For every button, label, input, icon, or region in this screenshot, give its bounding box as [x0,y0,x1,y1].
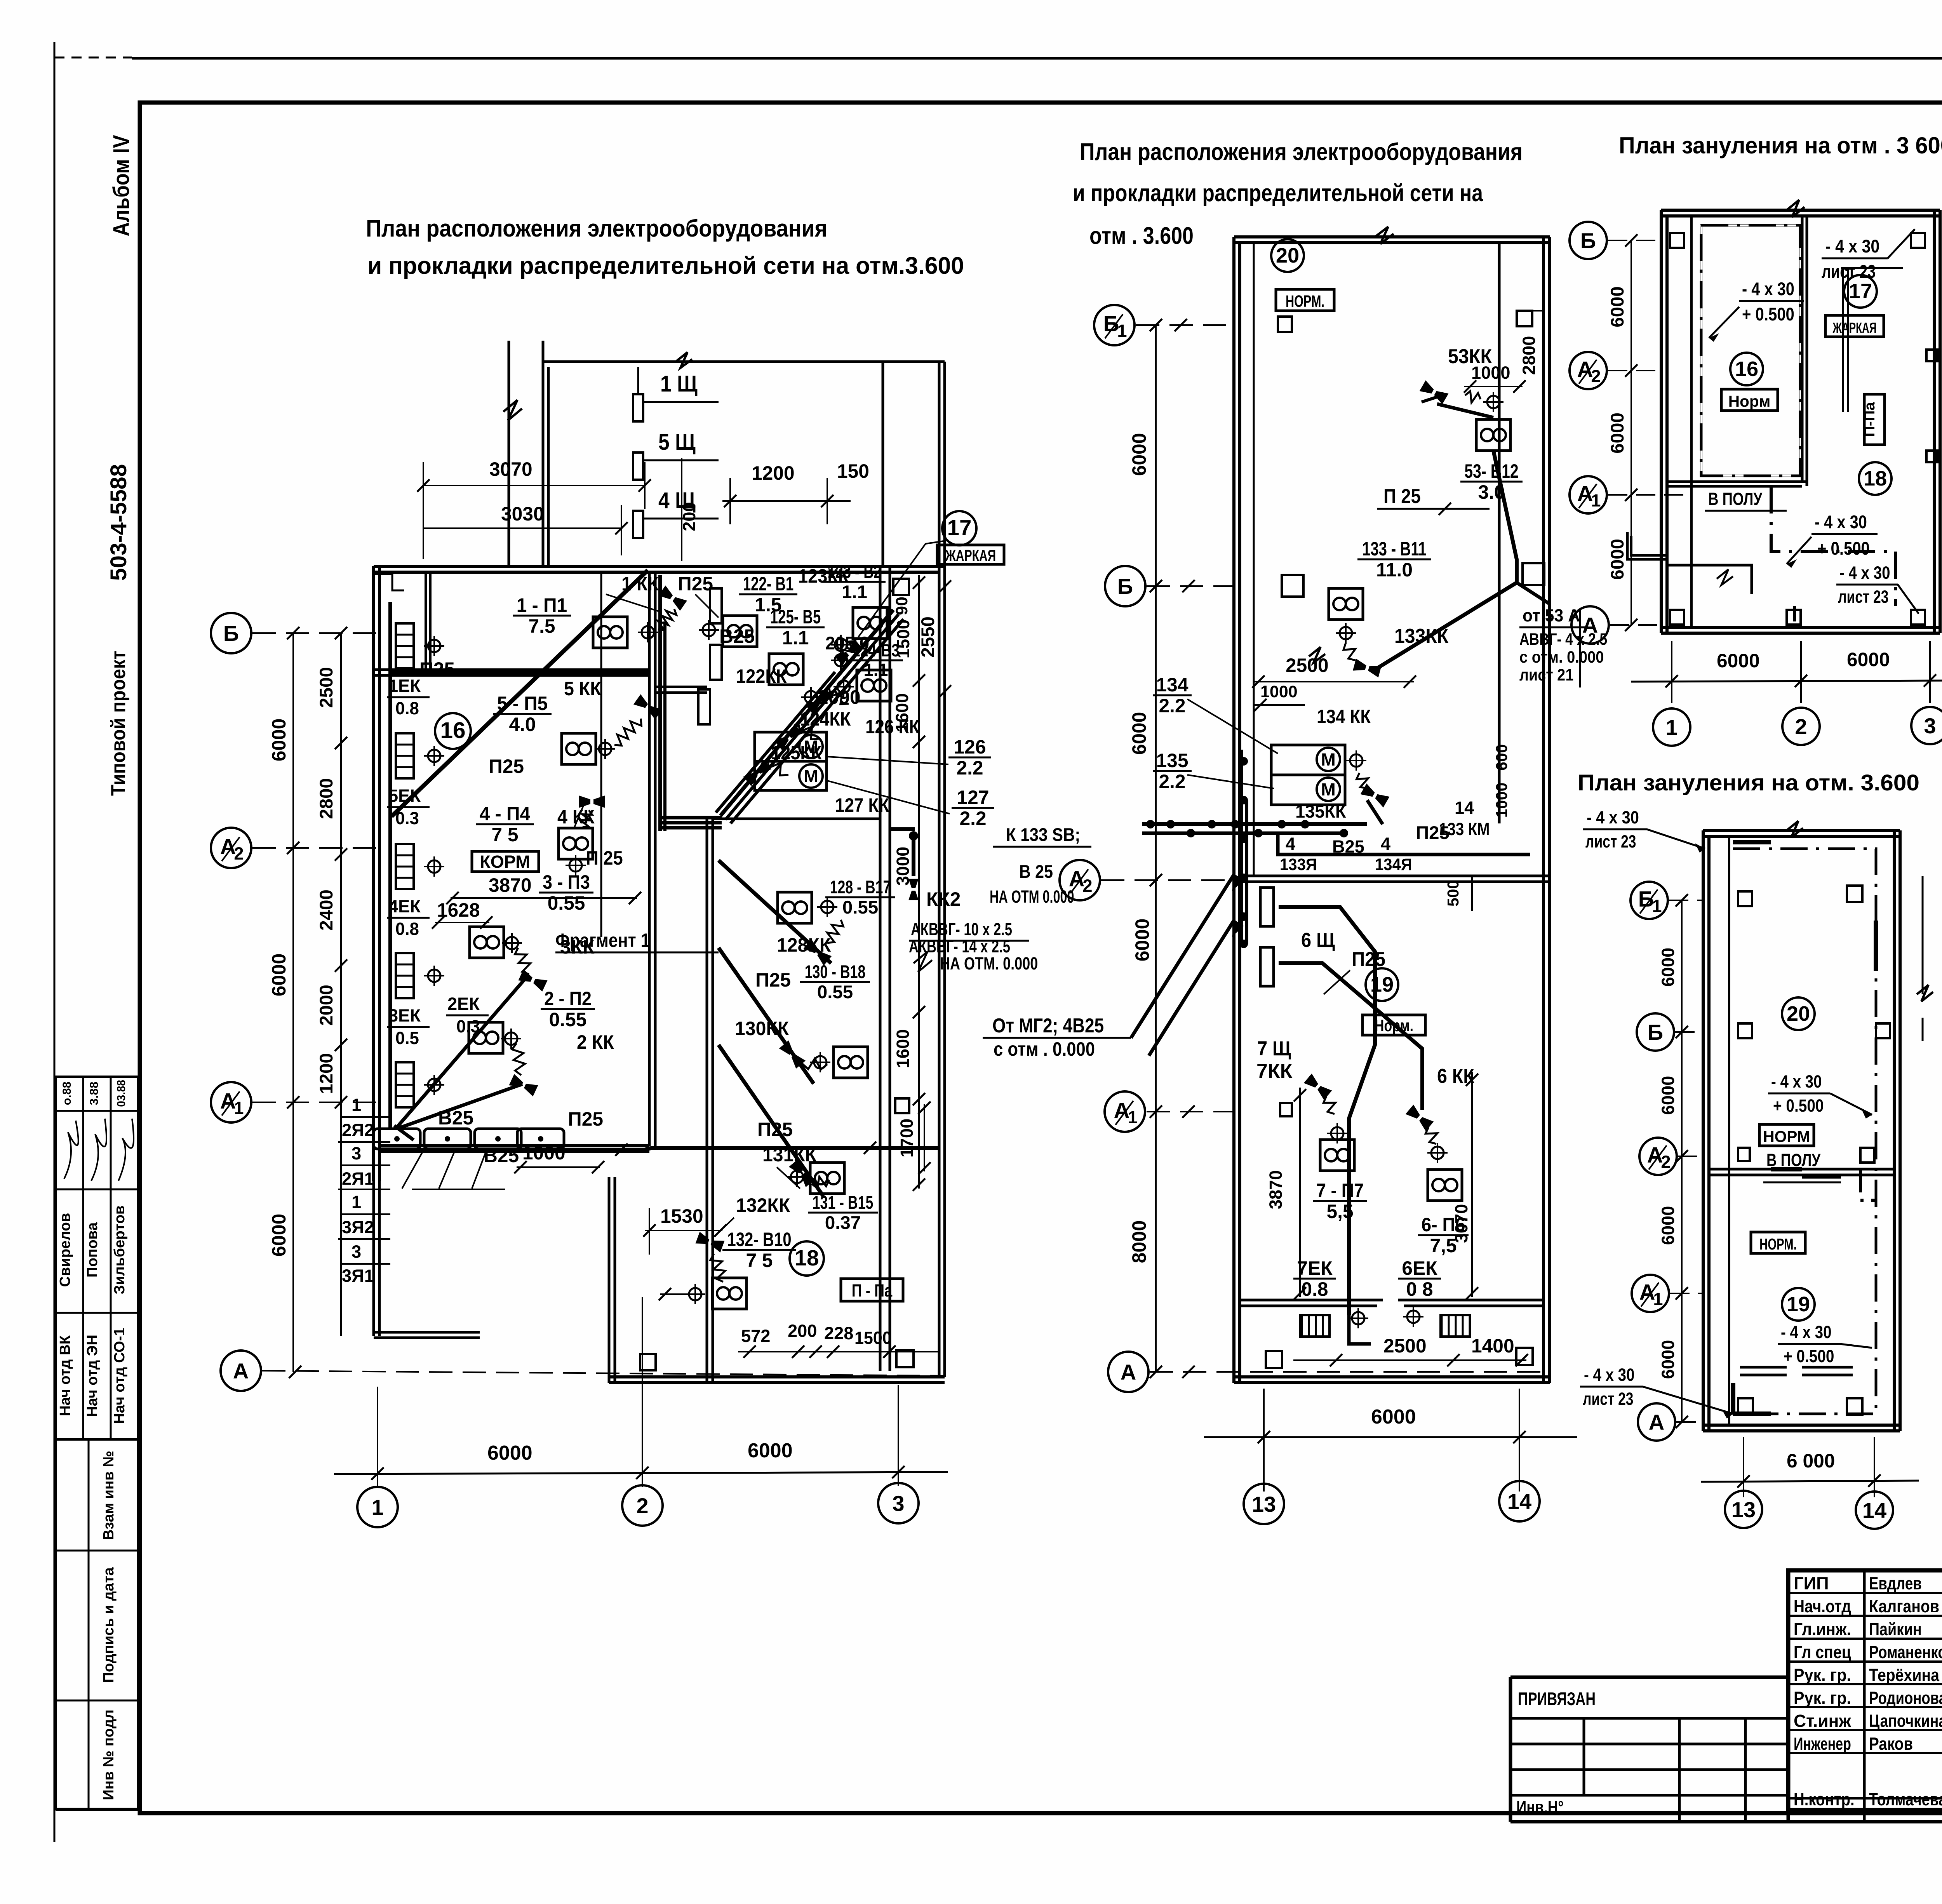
plan1 grid bubble A2 [211,828,251,868]
plan1 wall square markers bottom [640,1354,656,1370]
svg-text:6000: 6000 [1128,433,1150,476]
plan3 grid bubble B [1570,222,1607,259]
svg-text:600: 600 [1493,744,1510,771]
svg-text:лист 23: лист 23 [1838,587,1889,607]
plan2 junction dots [1147,821,1154,828]
plan1 wall stub left of hall [508,341,510,568]
svg-text:1600: 1600 [892,693,912,733]
plan1 shield panel 4Shch [633,511,643,538]
svg-text:Цапочкина: Цапочкина [1869,1711,1942,1731]
plan1 room17 number circle [942,511,976,545]
svg-text:3070: 3070 [489,458,532,480]
plan1 grid bubble A [221,1351,261,1391]
plan4 ground thick corner top [1733,840,1771,844]
svg-text:14: 14 [1455,798,1474,818]
svg-text:Н.контр.: Н.контр. [1794,1789,1855,1809]
svg-text:134Я: 134Я [1375,855,1412,874]
svg-text:1: 1 [1652,896,1662,916]
plan1 left outer wall [372,566,375,1181]
svg-text:13: 13 [1731,1497,1756,1522]
plan4 inner left wall [1728,836,1730,1425]
svg-text:6ЕК: 6ЕК [1402,1257,1437,1279]
plan2 building bottom wall [1234,1375,1550,1378]
plan1 room17 fixtures [723,616,757,647]
plan2 interior wall at A2 [1240,875,1550,877]
svg-text:150: 150 [837,460,869,482]
svg-text:1600: 1600 [893,1029,913,1069]
plan2 cables from panels [1279,907,1375,1315]
svg-text:Ст.инж: Ст.инж [1794,1711,1852,1731]
svg-text:К 133 SВ;: К 133 SВ; [1006,825,1080,845]
plan1 riser line from panels [637,367,639,394]
svg-text:М: М [1321,750,1336,769]
plan2 grid bubble B1 [1094,305,1135,345]
svg-text:1.1: 1.1 [842,582,867,602]
sheet outer border top [54,57,132,59]
plan1 upper hall top wall [543,360,945,363]
svg-text:Б: Б [223,621,239,646]
plan1 bottom grid extension lines [377,1387,378,1488]
plan2 6Shch panel [1260,888,1274,926]
svg-text:127: 127 [957,787,989,808]
plan1 diagonal cable 130 [719,948,814,1084]
plan2 grid bubble A1 [1105,1091,1145,1132]
plan4 grid bubble B1 [1631,882,1668,919]
svg-text:572: 572 [741,1326,770,1346]
plan2 7Shch panel [1260,947,1274,986]
plan1 top dim 3030 [423,527,621,529]
svg-text:КК2: КК2 [926,888,961,910]
plan1 outer dim 2550 [944,583,946,694]
plan1 leader lines from connectors [402,1150,423,1189]
plan1 cable along bottom [412,1148,939,1150]
svg-text:В25: В25 [438,1107,473,1129]
plan2 fixture 6-P6 [1428,1170,1462,1201]
plan4 partition gaps [1771,1167,1802,1171]
plan3 dash-dot ground loop room16 [1701,225,1800,476]
svg-text:5 Щ: 5 Щ [658,430,696,455]
plan1 room18 top wall [713,818,880,820]
svg-text:Евдлев: Евдлев [1869,1573,1922,1593]
plan2 bottom inner wall [1240,1299,1383,1302]
plan1 fixture 128-B17 [778,892,812,923]
svg-text:Нач отд СО-1: Нач отд СО-1 [111,1328,128,1424]
plan1 small room wall left [425,572,427,670]
svg-text:План расположения электрообор: План расположения электрооборудования [1080,139,1523,165]
plan1 partition right of corridor [655,686,707,688]
svg-text:лист 23: лист 23 [1585,832,1636,851]
svg-text:0.8: 0.8 [395,919,419,939]
svg-text:1: 1 [352,1095,361,1115]
plan3 building outer walls [1661,209,1940,212]
svg-text:Б: Б [1580,228,1596,253]
svg-text:20: 20 [1276,244,1299,267]
svg-text:и прокладки распределительной: и прокладки распределительной сети на [1073,180,1483,207]
svg-text:2500: 2500 [316,667,337,708]
svg-text:Гл.инж.: Гл.инж. [1794,1619,1851,1639]
svg-text:1000: 1000 [1471,363,1510,383]
svg-text:1: 1 [352,1192,361,1212]
plan3 wall square markers [1670,233,1684,248]
svg-text:Типовой проект: Типовой проект [107,651,130,796]
svg-text:Нач.отд: Нач.отд [1794,1596,1851,1616]
plan1 fixture 5-P5 [562,733,596,764]
plan1 bottom dim line [334,1472,948,1474]
svg-text:Калганов: Калганов [1869,1596,1939,1616]
svg-text:2 КК: 2 КК [577,1031,614,1053]
svg-text:1200: 1200 [316,1053,337,1094]
svg-text:0.55: 0.55 [842,897,878,918]
svg-text:7 5: 7 5 [746,1250,773,1271]
plan1 fixture 1-P1 [593,617,627,648]
svg-text:3: 3 [352,1143,361,1163]
svg-text:2.2: 2.2 [956,757,983,779]
plan1 room16 norm box [472,851,539,872]
svg-text:5 КК: 5 КК [564,678,601,700]
plan2 building left wall [1232,237,1236,1383]
svg-text:- 4 х 30: - 4 х 30 [1587,808,1639,827]
plan1 lower block left wall [608,1177,611,1383]
svg-text:1500: 1500 [893,620,913,659]
svg-text:4.0: 4.0 [509,714,536,735]
plan2 hatched floor panels [1302,1315,1470,1336]
svg-text:3: 3 [352,1242,361,1262]
plan1 fixture 131-B15 [810,1163,844,1194]
svg-text:2: 2 [234,844,244,863]
plan1 diagonal cable 131 [719,1045,823,1196]
svg-text:4 - П4: 4 - П4 [480,803,531,825]
plan2 wall square B1 [1278,317,1292,332]
svg-text:0.8: 0.8 [395,698,419,718]
plan1 panel boxes on corridor top [710,588,722,623]
stamp section vzam inv [54,1439,57,1810]
plan4 norm box room20 [1759,1124,1814,1146]
plan1 fixture 130-B18 [834,1047,868,1078]
svg-text:Б: Б [1648,1020,1663,1044]
plan2 wall square markers bottom [1266,1351,1282,1368]
svg-text:4: 4 [1381,834,1390,854]
svg-text:В 25: В 25 [1019,861,1053,882]
svg-text:+ 0.500: + 0.500 [1784,1346,1834,1366]
svg-text:134 КК: 134 КК [1317,706,1371,727]
svg-text:План расположения электрообор: План расположения электрооборудования [366,215,827,242]
svg-text:План зануления на отм. 3.600: План зануления на отм. 3.600 [1578,770,1919,795]
svg-text:6000: 6000 [268,954,290,997]
svg-text:лист 21: лист 21 [1519,666,1573,684]
svg-text:П-Па: П-Па [1861,402,1878,437]
svg-text:2Я1: 2Я1 [342,1169,374,1189]
svg-text:П25: П25 [678,573,713,595]
svg-text:7КК: 7КК [1256,1060,1293,1083]
svg-text:Альбом IV: Альбом IV [109,135,134,237]
plan2 wall square B1 right [1517,311,1532,326]
svg-text:6000: 6000 [487,1442,532,1464]
plan1 room18 right wall [879,566,882,1371]
svg-text:План зануления на отм . 3 60: План зануления на отм . 3 600 [1619,132,1942,158]
svg-text:14: 14 [1862,1498,1886,1523]
plan1 thick cable top room16 [390,671,649,675]
plan1 room18 P-IIa box [841,1279,903,1301]
svg-text:6000: 6000 [1607,412,1628,454]
svg-text:П 25: П 25 [586,847,623,869]
plan4 left dim line [1681,900,1683,1422]
plan4 ground thick corner bottom [1733,1411,1771,1416]
svg-text:А: А [1582,613,1598,637]
plan1 grid bubble A1 [211,1082,251,1123]
plan2 wall square A1 [1280,1103,1292,1116]
plan1 cable corridor horizontals [660,816,722,820]
svg-text:- 4 х 30: - 4 х 30 [1825,236,1879,257]
svg-text:Рук. гр.: Рук. гр. [1794,1665,1851,1685]
svg-text:с отм. 0.000: с отм. 0.000 [1519,648,1604,667]
svg-text:2: 2 [636,1493,648,1518]
plan2 feeder diagonals from left [1131,874,1234,1038]
plan4 bottom partitions near exit [1740,1366,1787,1369]
plan4 interior wall at A2 [1709,1168,1894,1171]
plan1 shield panel 5Shch [633,453,643,480]
svg-text:Раков: Раков [1869,1734,1913,1754]
svg-text:Попова: Попова [84,1222,101,1277]
svg-text:2Я2: 2Я2 [342,1120,374,1140]
svg-text:2500: 2500 [1383,1335,1427,1357]
svg-text:2.2: 2.2 [1159,771,1185,792]
plan2 left dim line [1155,325,1157,1372]
svg-text:4: 4 [1286,834,1295,854]
svg-text:2800: 2800 [316,778,337,819]
svg-text:А: А [1649,1410,1664,1434]
plan2 room20 inner line [1253,243,1255,876]
svg-text:0.55: 0.55 [548,892,585,914]
plan1 platform edge line room16 [600,572,602,937]
plan3 P-IIa vertical box [1864,394,1885,445]
svg-text:2800: 2800 [1519,336,1539,375]
svg-text:+ 0.500: + 0.500 [1817,538,1870,559]
svg-text:Нач отд ВК: Нач отд ВК [57,1335,73,1416]
svg-text:М: М [1321,780,1336,799]
svg-text:1.1: 1.1 [782,627,809,649]
plan3 grid bubble A2 [1570,352,1607,389]
svg-text:3070: 3070 [1451,1204,1471,1243]
plan2 cable drop to floor [1349,1315,1371,1344]
plan1 zharkaya box [937,545,1004,564]
svg-text:1000: 1000 [1493,783,1510,818]
svg-text:6000: 6000 [1658,948,1678,987]
plan2 building right wall [1542,237,1545,1383]
svg-text:18: 18 [1864,467,1887,490]
svg-text:А: А [233,1359,249,1383]
svg-text:Зильбертов: Зильбертов [111,1205,128,1294]
svg-text:3КК: 3КК [560,936,595,958]
svg-text:ЖАРКАЯ: ЖАРКАЯ [945,546,996,564]
plan1 inner dim column [340,633,342,1336]
plan3 room18 circle [1859,462,1892,495]
svg-text:2: 2 [1661,1152,1671,1172]
plan3 norm box [1721,389,1778,411]
plan1 kk flag near top [658,585,687,611]
plan3 room17 partition [1841,267,1903,269]
svg-text:НОРМ.: НОРМ. [1759,1235,1797,1253]
svg-text:с отм . 0.000: с отм . 0.000 [994,1038,1095,1060]
plan1 lower left wall step [372,1177,375,1336]
svg-text:6000: 6000 [1371,1406,1416,1428]
plan4 right side break mark [1917,985,1933,1001]
plan4 in floor dashes [1802,1175,1841,1179]
svg-text:135: 135 [1156,750,1189,771]
svg-text:Пайкин: Пайкин [1869,1619,1922,1639]
plan1 motor boxes [755,732,827,761]
svg-text:03.88: 03.88 [115,1080,128,1107]
svg-text:Свирелов: Свирелов [57,1213,73,1287]
plan2 grid bubble A2 [1060,860,1100,900]
svg-text:М: М [804,766,818,786]
plan1 bottom wall [609,1375,945,1378]
svg-text:6000: 6000 [1607,286,1628,327]
plan2 cable 133 diagonal [1371,583,1517,672]
svg-text:В25: В25 [1332,837,1364,856]
svg-text:1 Щ: 1 Щ [660,371,698,397]
plan1 strip dim 1700 [924,1104,925,1171]
svg-text:90: 90 [893,597,911,615]
title block signature columns [1788,1592,1942,1594]
svg-text:1400: 1400 [1471,1335,1514,1357]
svg-text:6000: 6000 [1847,649,1890,670]
svg-text:2550: 2550 [918,616,938,658]
plan2 cable 53 diagonal [1437,404,1493,418]
plan2 wall square B [1282,575,1303,597]
svg-text:1: 1 [1117,321,1127,341]
svg-text:0.55: 0.55 [817,982,853,1002]
svg-text:14: 14 [1507,1489,1531,1514]
svg-text:П25: П25 [757,1119,793,1140]
svg-text:НА ОТМ. 0.000: НА ОТМ. 0.000 [940,954,1038,973]
svg-text:о.88: о.88 [61,1082,73,1105]
svg-text:лист 23: лист 23 [1583,1389,1634,1409]
plan1 partition wall in room16 [374,668,649,671]
plan1 connector boxes row [374,1129,420,1149]
plan1 room18 number circle [790,1241,824,1276]
svg-text:1200: 1200 [752,462,795,484]
plan2 right inner wall [1498,243,1501,823]
svg-text:Взам инв №: Взам инв № [100,1451,117,1540]
plan3 left dim line [1631,240,1632,625]
svg-text:Б: Б [1117,574,1133,599]
svg-text:П25: П25 [568,1108,603,1130]
svg-text:133 КМ: 133 КМ [1439,819,1490,839]
plan2 left wall cable thick [1239,750,1243,944]
svg-text:6000: 6000 [748,1439,793,1462]
svg-text:5,5: 5,5 [1326,1201,1353,1222]
plan2 A axis dashed through building [1150,1371,1550,1373]
plan4 wall squares bottom [1738,1398,1753,1414]
svg-text:503-4-5588: 503-4-5588 [106,464,131,581]
svg-text:126: 126 [954,736,986,758]
plan1 room16 number circle [435,713,471,749]
svg-text:7 Щ: 7 Щ [1257,1037,1291,1060]
svg-text:Подпись и дата: Подпись и дата [100,1567,117,1683]
plan1 bottom inner wall segment [379,1144,649,1147]
svg-text:2: 2 [1082,876,1092,896]
svg-text:Нач отд ЭН: Нач отд ЭН [84,1335,101,1417]
svg-text:132- В10: 132- В10 [727,1229,791,1250]
svg-text:ЖАРКАЯ: ЖАРКАЯ [1832,320,1877,336]
plan1 top dim 3070 [423,485,645,486]
svg-text:6000: 6000 [1658,1206,1678,1245]
plan4 bottom dim line and bubbles [1743,1437,1744,1497]
svg-text:- 4 х 30: - 4 х 30 [1742,279,1794,299]
svg-text:6000: 6000 [1658,1076,1678,1115]
svg-text:13: 13 [1252,1492,1276,1516]
svg-text:В ПОЛУ: В ПОЛУ [1766,1150,1821,1170]
plan2 fixture 133 [1329,588,1363,620]
plan3 room17 circle [1844,275,1877,308]
svg-text:3: 3 [1924,714,1936,738]
svg-text:200: 200 [788,1321,817,1341]
svg-text:- 4 х 30: - 4 х 30 [1584,1365,1635,1385]
svg-text:1: 1 [1591,491,1601,510]
svg-text:3 - П3: 3 - П3 [543,871,590,893]
svg-text:4ЕК: 4ЕК [388,896,421,916]
svg-text:- 4 х 30: - 4 х 30 [1781,1322,1832,1342]
plan3 ground drop to floor [1771,486,1895,606]
svg-text:500: 500 [1444,880,1462,907]
plan2 room19 circle [1366,968,1398,1001]
svg-text:и прокладки распределительной: и прокладки распределительной сети на от… [367,252,964,279]
sheet outer border left [54,42,56,1842]
svg-text:3Я1: 3Я1 [342,1266,374,1286]
plan2 interior wall break [1309,647,1325,663]
svg-text:- 4 х 30: - 4 х 30 [1815,512,1867,533]
plan1 room18 left wall [706,819,708,1383]
svg-text:- 4 х 30: - 4 х 30 [1771,1072,1822,1091]
svg-text:0.5: 0.5 [395,1028,419,1048]
svg-text:2: 2 [1795,714,1807,739]
svg-text:228: 228 [824,1323,853,1343]
plan3 grid bubble A1 [1570,476,1607,513]
title block privyazan table [1510,1676,1788,1679]
plan2 53KK flag [1420,380,1449,404]
svg-text:6000: 6000 [1607,539,1628,580]
svg-text:НОРМ: НОРМ [1763,1128,1810,1145]
svg-text:6000: 6000 [268,719,290,762]
plan3 room16 circle [1730,353,1763,385]
svg-text:1530: 1530 [660,1205,703,1227]
plan4 grid bubble A [1638,1403,1675,1441]
svg-text:П25: П25 [755,969,791,991]
plan1 kk flag 132 [696,1232,725,1252]
plan4 grid bubble A1 [1632,1275,1669,1312]
svg-text:П25: П25 [419,658,455,680]
svg-text:3.88: 3.88 [88,1082,101,1105]
plan1 corridor wall [648,572,651,1146]
svg-text:От МГ2; 4В25: От МГ2; 4В25 [992,1015,1104,1037]
plan4 grid bubble B [1637,1013,1674,1051]
plan4 grid bubble A2 [1639,1138,1677,1175]
svg-text:А: А [1121,1360,1136,1384]
plan2 room20 norm box [1276,289,1334,311]
svg-text:133 - В11: 133 - В11 [1362,538,1426,560]
svg-text:1: 1 [234,1098,244,1118]
plan4 dash-dot ground loop [1733,849,1876,1414]
plan1 building outer right wall [938,362,941,1375]
svg-text:20: 20 [1787,1002,1810,1025]
plan1 diagonal to 3KK [397,979,525,1127]
plan4 wall square A2 [1738,1148,1750,1161]
svg-text:В25: В25 [484,1145,519,1166]
svg-text:НОРМ.: НОРМ. [1286,292,1324,311]
svg-text:ГИП: ГИП [1794,1573,1829,1593]
svg-text:Рук. гр.: Рук. гр. [1794,1688,1851,1708]
svg-text:6000: 6000 [1717,650,1760,672]
